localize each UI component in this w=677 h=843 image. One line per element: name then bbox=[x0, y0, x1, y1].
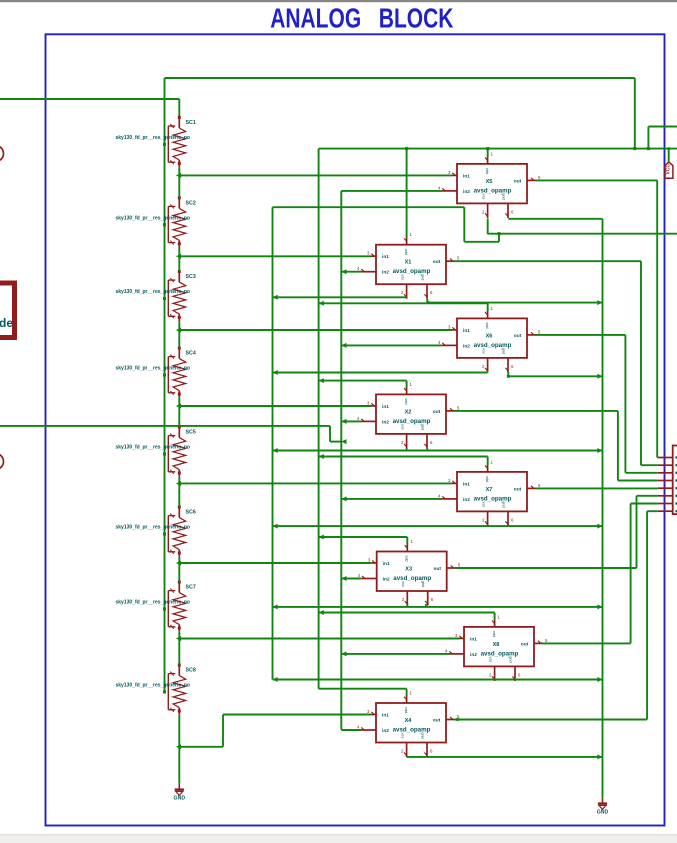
svg-text:sky130_fd_pr__res_generic_po: sky130_fd_pr__res_generic_po bbox=[116, 683, 191, 689]
svg-text:gnd: gnd bbox=[421, 732, 425, 738]
svg-text:X3: X3 bbox=[405, 567, 412, 573]
svg-text:vdd: vdd bbox=[404, 707, 408, 713]
svg-text:in1: in1 bbox=[382, 713, 389, 719]
svg-text:vss: vss bbox=[401, 733, 405, 739]
svg-text:in1: in1 bbox=[382, 404, 389, 410]
svg-text:out: out bbox=[433, 409, 441, 415]
svg-text:SC7: SC7 bbox=[186, 585, 196, 591]
svg-text:sky130_fd_pr__res_generic_po: sky130_fd_pr__res_generic_po bbox=[116, 525, 191, 531]
svg-text:gnd: gnd bbox=[502, 193, 506, 199]
svg-text:vdd: vdd bbox=[404, 249, 408, 255]
svg-text:in2: in2 bbox=[463, 189, 470, 195]
svg-text:in1: in1 bbox=[470, 636, 477, 642]
svg-text:out: out bbox=[433, 718, 441, 724]
svg-text:sky130_fd_pr__res_generic_po: sky130_fd_pr__res_generic_po bbox=[116, 600, 191, 606]
svg-text:vdd: vdd bbox=[485, 476, 489, 482]
svg-text:in2: in2 bbox=[383, 577, 390, 583]
svg-text:SC2: SC2 bbox=[186, 200, 196, 206]
svg-text:vss: vss bbox=[489, 657, 493, 663]
svg-text:gnd: gnd bbox=[421, 274, 425, 280]
svg-text:vdd: vdd bbox=[405, 555, 409, 561]
svg-text:BLOCK: BLOCK bbox=[379, 4, 454, 35]
svg-text:gnd: gnd bbox=[421, 424, 425, 430]
svg-text:in1: in1 bbox=[382, 254, 389, 260]
svg-text:gnd: gnd bbox=[509, 656, 513, 662]
svg-text:vss: vss bbox=[482, 194, 486, 200]
svg-text:out: out bbox=[433, 259, 441, 265]
svg-text:VCC: VCC bbox=[666, 164, 672, 175]
svg-text:vss: vss bbox=[401, 581, 405, 587]
svg-text:sky130_fd_pr__res_generic_po: sky130_fd_pr__res_generic_po bbox=[116, 445, 191, 451]
svg-text:in2: in2 bbox=[382, 419, 389, 425]
svg-text:SC3: SC3 bbox=[186, 274, 196, 280]
svg-text:X1: X1 bbox=[405, 260, 412, 266]
svg-text:in1: in1 bbox=[463, 481, 470, 487]
svg-text:SC4: SC4 bbox=[186, 351, 196, 357]
svg-text:X6: X6 bbox=[486, 333, 493, 339]
svg-text:ANALOG: ANALOG bbox=[270, 4, 361, 35]
svg-text:X7: X7 bbox=[486, 487, 493, 493]
svg-text:X4: X4 bbox=[405, 718, 413, 724]
svg-text:vss: vss bbox=[482, 348, 486, 354]
svg-text:in2: in2 bbox=[463, 343, 470, 349]
svg-text:vss: vss bbox=[401, 424, 405, 430]
svg-text:SC1: SC1 bbox=[186, 120, 196, 126]
svg-text:in2: in2 bbox=[470, 652, 477, 658]
svg-text:SC6: SC6 bbox=[186, 510, 196, 516]
svg-text:vss: vss bbox=[482, 502, 486, 508]
svg-text:SC5: SC5 bbox=[186, 430, 196, 436]
svg-text:sky130_fd_pr__res_generic_po: sky130_fd_pr__res_generic_po bbox=[116, 366, 191, 372]
svg-text:in1: in1 bbox=[383, 561, 390, 567]
svg-text:de: de bbox=[0, 316, 13, 330]
svg-text:gnd: gnd bbox=[421, 581, 425, 587]
svg-text:GND: GND bbox=[174, 795, 186, 801]
svg-text:in2: in2 bbox=[382, 728, 389, 734]
svg-text:in2: in2 bbox=[382, 270, 389, 276]
svg-text:sky130_fd_pr__res_generic_po: sky130_fd_pr__res_generic_po bbox=[116, 215, 191, 221]
svg-text:sky130_fd_pr__res_generic_po: sky130_fd_pr__res_generic_po bbox=[116, 289, 191, 295]
svg-text:X2: X2 bbox=[405, 409, 412, 415]
svg-text:gnd: gnd bbox=[502, 501, 506, 507]
svg-text:in1: in1 bbox=[463, 328, 470, 334]
svg-text:out: out bbox=[514, 178, 522, 184]
svg-text:vdd: vdd bbox=[485, 168, 489, 174]
svg-text:out: out bbox=[514, 486, 522, 492]
svg-text:SC8: SC8 bbox=[186, 668, 196, 674]
svg-text:out: out bbox=[433, 566, 441, 572]
svg-text:in1: in1 bbox=[463, 173, 470, 179]
svg-text:GND: GND bbox=[597, 809, 609, 815]
svg-text:out: out bbox=[521, 641, 529, 647]
svg-text:vdd: vdd bbox=[485, 322, 489, 328]
svg-text:X5: X5 bbox=[486, 179, 493, 185]
svg-text:in2: in2 bbox=[463, 497, 470, 503]
svg-text:gnd: gnd bbox=[502, 348, 506, 354]
svg-text:vdd: vdd bbox=[404, 398, 408, 404]
svg-text:sky130_fd_pr__res_generic_po: sky130_fd_pr__res_generic_po bbox=[116, 135, 191, 141]
svg-text:out: out bbox=[514, 333, 522, 339]
svg-text:vdd: vdd bbox=[492, 631, 496, 637]
svg-text:X8: X8 bbox=[493, 642, 500, 648]
svg-text:vss: vss bbox=[401, 274, 405, 280]
